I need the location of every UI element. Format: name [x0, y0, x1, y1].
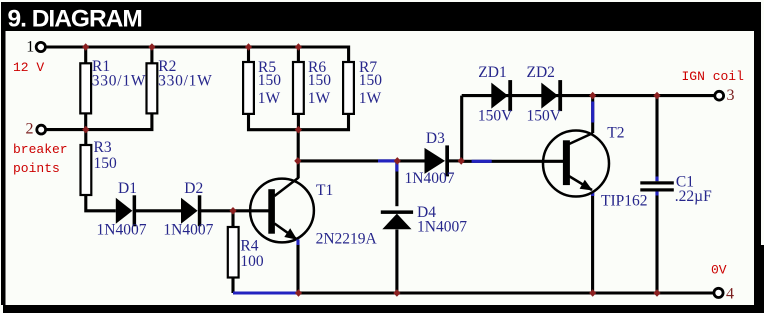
- wire blue segment on T2 base run: [472, 160, 492, 163]
- resistor R5: [243, 62, 254, 114]
- node dot rail T1 emitter: [295, 289, 302, 297]
- node dot rail-R5: [245, 43, 252, 51]
- resistor R4: [228, 227, 239, 278]
- wire D3 cathode to riser node: [449, 159, 462, 162]
- wire D2 to T1 base: [201, 209, 269, 212]
- wire riser up to zener row: [460, 96, 463, 161]
- svg-text:3: 3: [727, 87, 735, 104]
- node dot rail D4: [393, 289, 400, 297]
- node dot rail-R6: [295, 43, 302, 51]
- wire R2 bottom to junction: [86, 113, 152, 129]
- wire 0V bottom rail: [299, 291, 714, 294]
- node dot C1 top: [653, 92, 660, 100]
- node dot rail C1: [653, 289, 660, 297]
- terminal 3: [715, 91, 724, 100]
- wire D4 bottom to rail: [395, 230, 398, 294]
- wire base node down to R4: [231, 211, 234, 227]
- svg-text:IGN coil: IGN coil: [682, 69, 745, 84]
- frame right border lower extension: [754, 245, 764, 313]
- wire base run to T2: [462, 160, 563, 163]
- wire R6 bus down to collector node: [297, 130, 300, 161]
- svg-text:T1: T1: [316, 182, 333, 199]
- node dot R6 bus: [295, 126, 302, 134]
- svg-text:150V: 150V: [527, 107, 562, 124]
- transistor T2: [543, 131, 609, 197]
- resistor R6: [293, 62, 304, 114]
- svg-text:.22µF: .22µF: [675, 188, 712, 205]
- svg-text:150V: 150V: [478, 107, 513, 124]
- svg-text:150: 150: [359, 72, 383, 89]
- svg-text:1N4007: 1N4007: [417, 219, 467, 236]
- capacitor C1: [640, 181, 674, 191]
- node dot base-R4: [229, 207, 236, 215]
- svg-text:2: 2: [26, 120, 34, 137]
- svg-text:2N2219A: 2N2219A: [316, 231, 378, 248]
- wire C1 top stub: [655, 96, 658, 182]
- terminal 2: [37, 125, 46, 134]
- svg-text:D2: D2: [184, 180, 203, 197]
- node dot rail-R2: [148, 43, 155, 51]
- svg-text:TIP162: TIP162: [601, 193, 648, 210]
- wire D4 top blue segment: [395, 163, 398, 172]
- frame right border: [754, 2, 761, 305]
- svg-text:0V: 0V: [711, 263, 727, 278]
- wire R1 top stub: [84, 47, 87, 63]
- wire R2 top stub: [150, 47, 153, 63]
- wire junction down to R3: [84, 130, 87, 145]
- wire C1 bottom blue segment: [655, 192, 658, 196]
- resistor R1: [80, 63, 91, 113]
- title bar: [1, 2, 761, 31]
- svg-text:1: 1: [26, 39, 34, 56]
- svg-text:R3: R3: [94, 139, 112, 156]
- transistor T1: [250, 161, 314, 293]
- svg-text:150: 150: [94, 155, 118, 172]
- wire T2 emitter down to rail: [591, 192, 594, 293]
- node dot collector T1: [294, 157, 301, 165]
- wire R4 bottom to 0V rail: [231, 278, 234, 294]
- svg-text:12 V: 12 V: [13, 60, 44, 75]
- svg-text:ZD1: ZD1: [478, 64, 506, 81]
- svg-text:330/1W: 330/1W: [92, 73, 146, 90]
- svg-text:1W: 1W: [359, 90, 382, 107]
- wire 0V bottom rail blue segment: [233, 291, 299, 294]
- svg-text:9. DIAGRAM: 9. DIAGRAM: [8, 5, 142, 32]
- svg-text:4: 4: [726, 285, 734, 302]
- wire R1 bottom stub: [84, 113, 87, 129]
- svg-text:1W: 1W: [308, 90, 331, 107]
- svg-text:D1: D1: [118, 180, 137, 197]
- wire collector node horizontal run to D3: [298, 159, 425, 162]
- diode D3: [425, 145, 450, 176]
- svg-text:R4: R4: [240, 238, 258, 255]
- svg-text:1N4007: 1N4007: [405, 170, 455, 187]
- svg-text:150: 150: [258, 72, 282, 89]
- wire T2 collector blue segment: [591, 102, 594, 123]
- svg-text:330/1W: 330/1W: [158, 73, 212, 90]
- diode D2: [181, 195, 201, 226]
- frame bottom border: [3, 305, 764, 313]
- svg-text:ZD2: ZD2: [527, 64, 555, 81]
- wire R5 R6 R7 bottom bus: [249, 114, 349, 130]
- node dot T2 collector: [589, 92, 596, 100]
- zener ZD1: [491, 80, 512, 111]
- wire C1 bottom stub: [655, 191, 658, 293]
- wire R5 top stub: [247, 47, 250, 63]
- terminal 4: [714, 288, 723, 297]
- svg-text:1N4007: 1N4007: [97, 222, 147, 239]
- wire terminal 2 to R1/R3 junction: [46, 128, 86, 131]
- wire zener row to terminal 3: [462, 94, 715, 97]
- node dot D4 tap: [394, 157, 401, 165]
- node dot breaker junction: [82, 126, 89, 134]
- svg-text:150: 150: [308, 72, 332, 89]
- svg-text:1W: 1W: [258, 90, 281, 107]
- wire blue segment before D4 node: [378, 159, 396, 162]
- wire top rail from terminal 1 to R7: [45, 47, 349, 63]
- diode D4: [381, 210, 413, 229]
- svg-text:100: 100: [240, 253, 264, 270]
- resistor R3: [81, 145, 92, 195]
- resistor R7: [343, 62, 354, 114]
- frame left border: [1, 2, 6, 305]
- zener ZD2: [541, 80, 562, 111]
- wire T2 collector riser: [591, 96, 594, 133]
- node dot rail-R1: [82, 43, 89, 51]
- svg-text:points: points: [13, 161, 60, 176]
- wire D1 to D2: [136, 209, 181, 212]
- wire C1 top blue segment: [655, 177, 658, 182]
- wire R3 bottom to D1: [86, 195, 116, 211]
- wire D4 top stub: [395, 161, 398, 206]
- wire R6 top stub: [297, 47, 300, 63]
- terminal 1: [36, 42, 45, 51]
- diode D1: [116, 195, 136, 226]
- svg-text:breaker: breaker: [13, 142, 68, 157]
- svg-text:1N4007: 1N4007: [163, 222, 213, 239]
- svg-text:T2: T2: [607, 125, 624, 142]
- svg-text:D3: D3: [426, 130, 445, 147]
- node dot rail T2 emitter: [589, 289, 596, 297]
- wire T2 emitter blue pixel: [591, 193, 594, 197]
- node dot D3 output: [458, 157, 465, 165]
- resistor R2: [147, 63, 158, 113]
